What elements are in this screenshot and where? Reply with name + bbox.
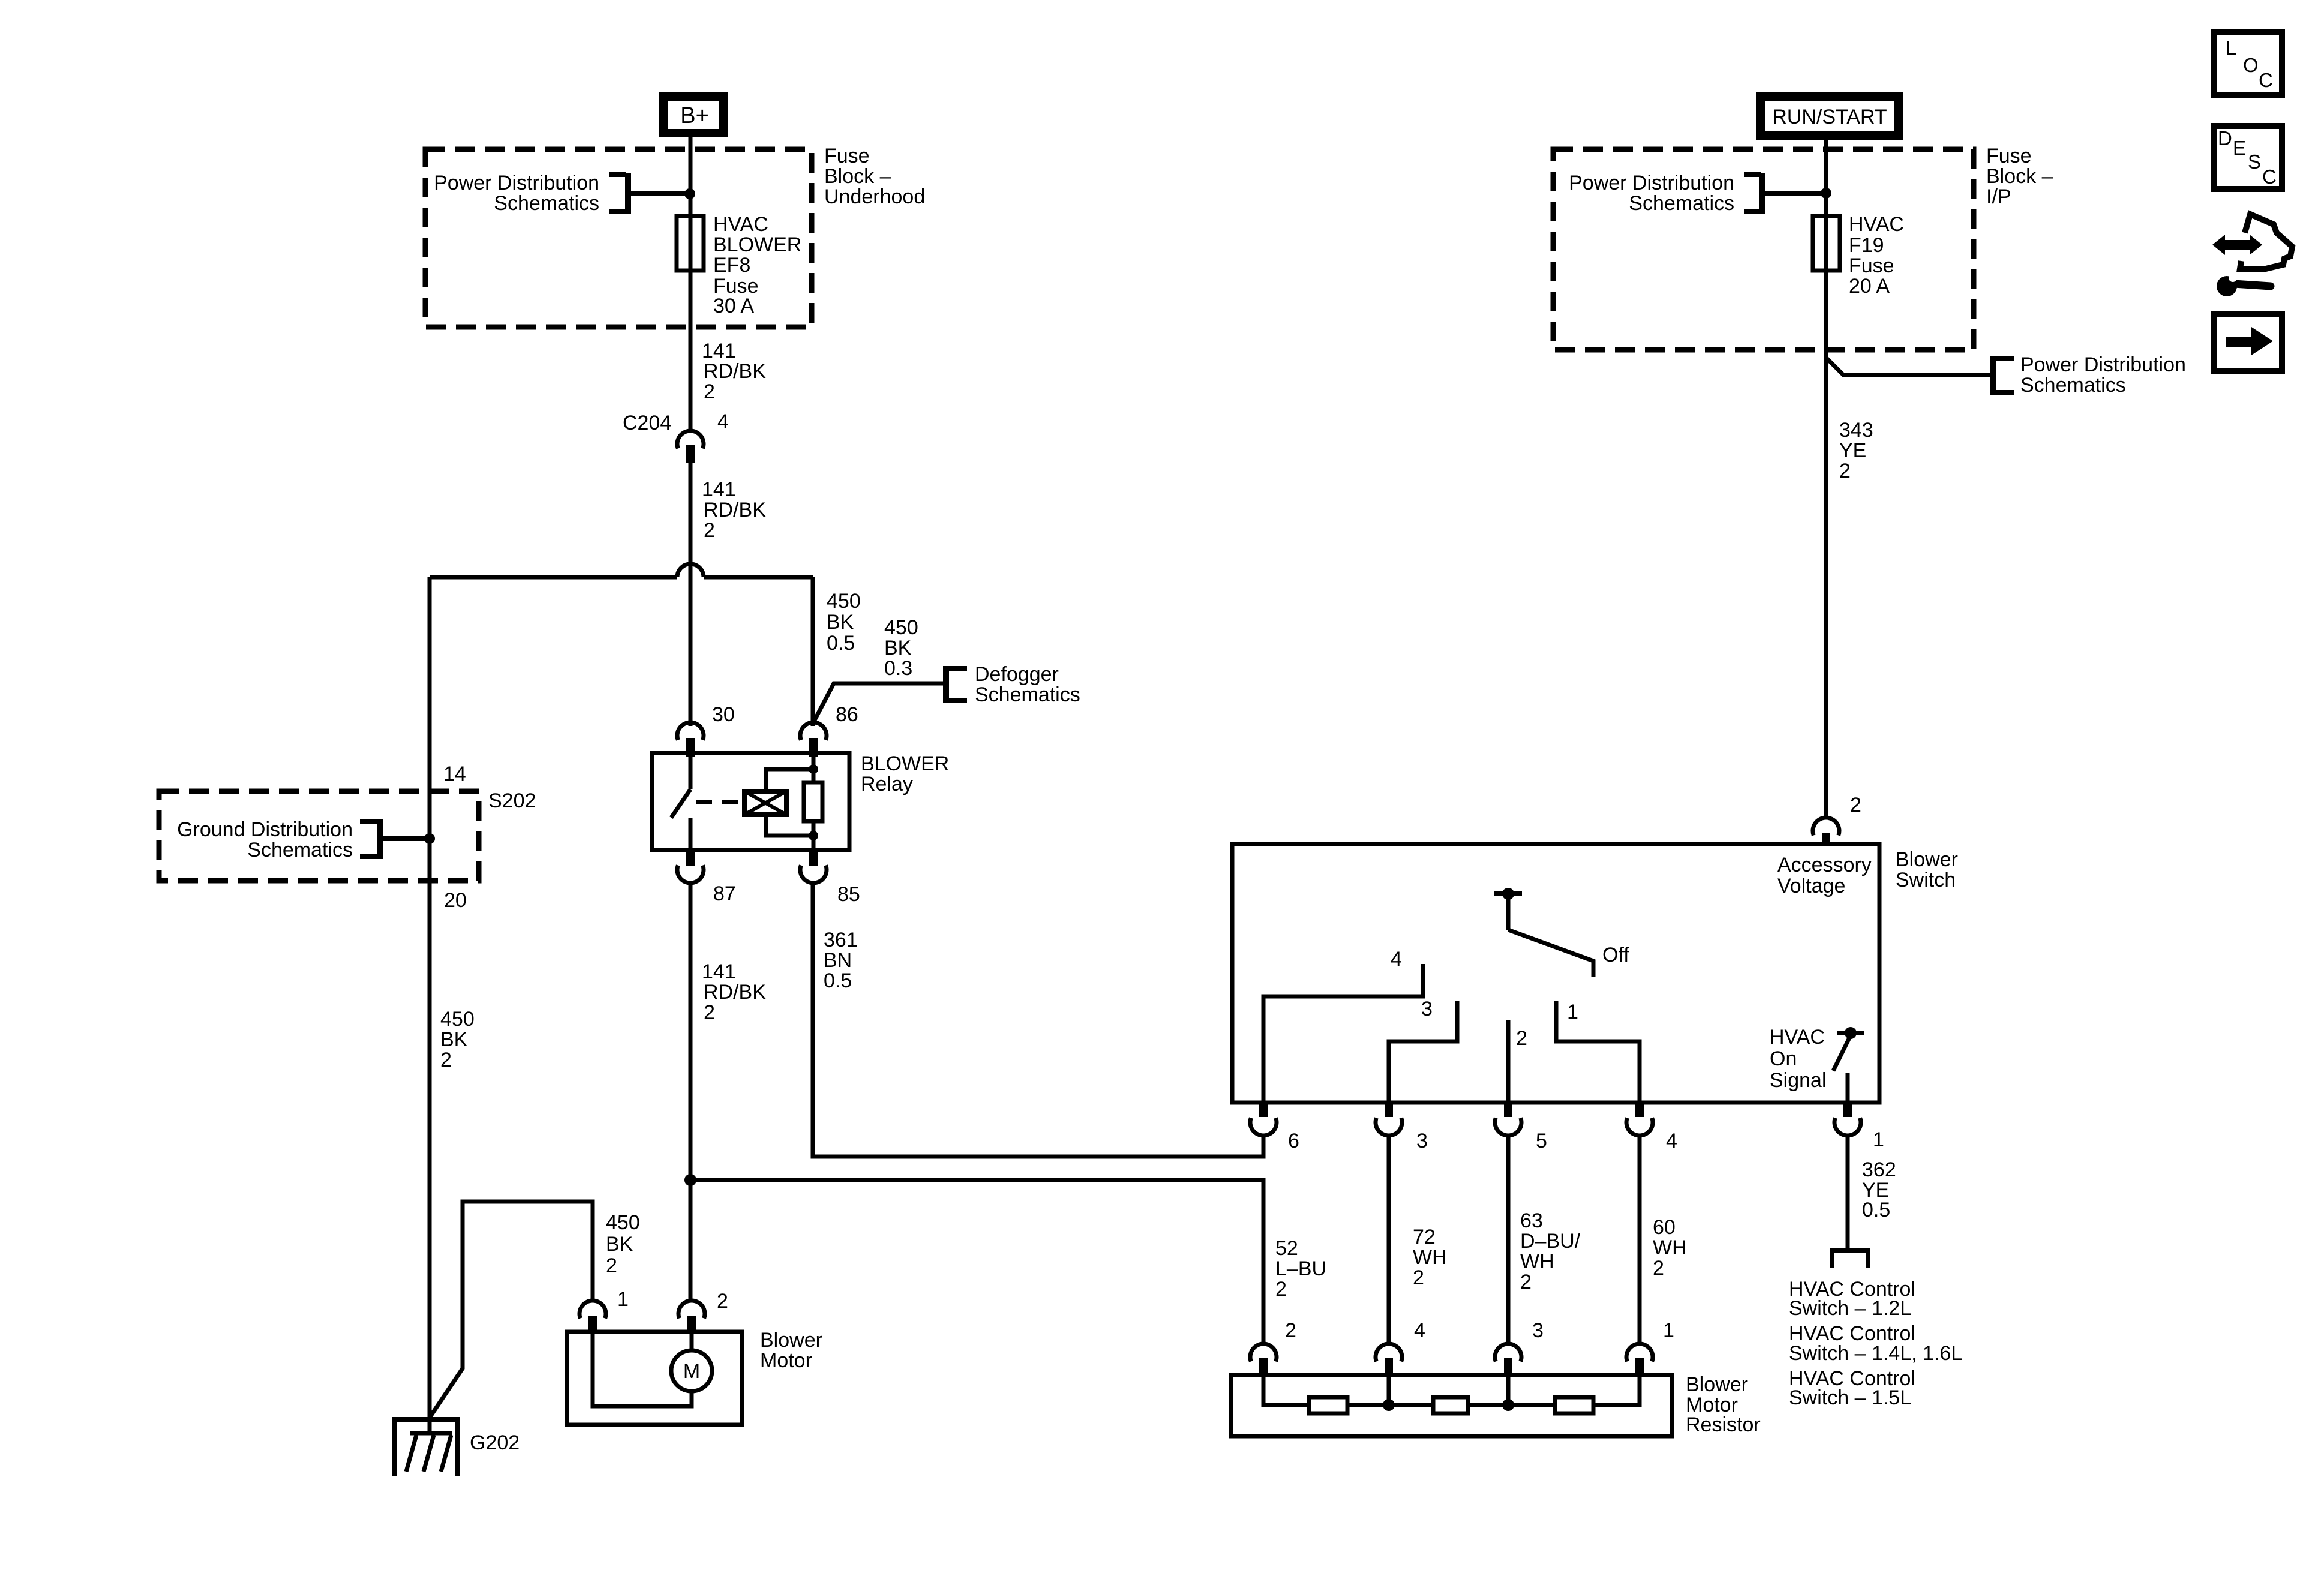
switch position terminal 3 xyxy=(1389,1001,1457,1103)
svg-text:30: 30 xyxy=(712,703,735,726)
svg-text:2: 2 xyxy=(704,1001,715,1024)
label wire 60 WH 2 xyxy=(1653,1216,1687,1280)
svg-text:5: 5 xyxy=(1536,1130,1547,1152)
svg-text:2: 2 xyxy=(1413,1266,1424,1289)
HVAC on signal switch xyxy=(1833,1027,1864,1103)
blower motor box xyxy=(567,1332,742,1425)
node resistor junction a xyxy=(1383,1399,1395,1411)
svg-text:RUN/START: RUN/START xyxy=(1772,106,1887,128)
svg-text:Block –: Block – xyxy=(1986,165,2053,188)
label wire 63 D-BU/WH 2 xyxy=(1520,1209,1581,1293)
svg-text:2: 2 xyxy=(1850,794,1861,816)
svg-text:BK: BK xyxy=(606,1233,633,1256)
label Accessory Voltage xyxy=(1777,854,1872,897)
svg-text:Fuse: Fuse xyxy=(1849,254,1894,277)
svg-text:2: 2 xyxy=(1520,1271,1532,1293)
svg-text:Schematics: Schematics xyxy=(1629,192,1734,215)
blower switch box xyxy=(1232,844,1879,1103)
power tap RUN/START xyxy=(1756,92,1903,140)
svg-text:C204: C204 xyxy=(623,412,671,434)
wire B+ feed xyxy=(689,137,693,726)
label Power Distribution Schematics (right) xyxy=(2020,353,2186,397)
relay connector pin 85 xyxy=(800,850,827,883)
svg-text:F19: F19 xyxy=(1849,234,1884,257)
motor connector pin 1 xyxy=(580,1301,606,1332)
svg-text:Switch – 1.4L, 1.6L: Switch – 1.4L, 1.6L xyxy=(1789,1342,1962,1365)
resistor connector pin 2 xyxy=(1250,1344,1277,1375)
wire 60 WH switch pin 4 to resistor pin 1 xyxy=(1638,1136,1642,1344)
resistor connector pin 4 xyxy=(1376,1344,1402,1375)
svg-text:Power Distribution: Power Distribution xyxy=(434,172,599,194)
resistor internal wires xyxy=(1263,1375,1640,1405)
motor internal wires xyxy=(593,1332,692,1406)
switch connector pin 1 xyxy=(1834,1103,1861,1136)
svg-text:Block –: Block – xyxy=(824,165,891,188)
svg-text:S202: S202 xyxy=(488,789,536,812)
switch connector pin 3 xyxy=(1376,1103,1402,1136)
wire relay coil ground branch xyxy=(811,577,815,726)
fuse F19 HVAC 20 A xyxy=(1813,216,1840,271)
icon box arrow xyxy=(2214,314,2282,371)
wire ground distribution drop xyxy=(428,577,432,1434)
svg-text:Switch: Switch xyxy=(1896,869,1956,891)
svg-text:1: 1 xyxy=(1663,1319,1674,1342)
svg-text:BK: BK xyxy=(440,1028,468,1051)
svg-text:Off: Off xyxy=(1602,944,1629,966)
svg-text:HVAC: HVAC xyxy=(1849,213,1904,236)
relay connector pin 86 xyxy=(800,722,827,757)
svg-text:87: 87 xyxy=(713,882,736,905)
svg-text:0.5: 0.5 xyxy=(824,969,852,992)
svg-text:WH: WH xyxy=(1520,1250,1554,1273)
wire tap to ground distribution xyxy=(380,836,427,841)
switch rotor pivot xyxy=(1494,888,1522,930)
label HVAC On Signal xyxy=(1770,1026,1827,1092)
wire tap to power distribution (I/P) xyxy=(1764,191,1824,196)
svg-text:2: 2 xyxy=(606,1254,617,1277)
svg-text:Schematics: Schematics xyxy=(247,839,353,861)
svg-text:3: 3 xyxy=(1421,998,1433,1020)
label Power Distribution Schematics (I/P) xyxy=(1569,172,1734,215)
label HVAC BLOWER EF8 Fuse 30 A xyxy=(713,213,801,317)
svg-text:Ground Distribution: Ground Distribution xyxy=(177,818,353,841)
label Blower Switch xyxy=(1896,848,1958,891)
svg-text:52: 52 xyxy=(1275,1237,1298,1260)
svg-text:Accessory: Accessory xyxy=(1777,854,1872,876)
svg-text:86: 86 xyxy=(836,703,858,726)
switch rotor blade xyxy=(1508,930,1593,977)
relay connector pin 30 xyxy=(677,722,704,757)
bracket Power Distribution Schematics (I/P) xyxy=(1744,173,1762,214)
node RUN/START tap junction xyxy=(1821,188,1831,199)
label wire 450 BK 2 (ground wire) xyxy=(440,1008,475,1071)
svg-text:20 A: 20 A xyxy=(1849,275,1890,298)
svg-text:Switch – 1.5L: Switch – 1.5L xyxy=(1789,1386,1911,1409)
svg-text:Power Distribution: Power Distribution xyxy=(2020,353,2186,376)
icon box LOC xyxy=(2214,32,2282,95)
svg-text:RD/BK: RD/BK xyxy=(704,360,766,383)
dashed box splice S202 xyxy=(159,791,479,881)
svg-text:On: On xyxy=(1770,1047,1797,1070)
svg-text:450: 450 xyxy=(606,1211,640,1234)
wire 52 L-BU junction to resistor pin 2 xyxy=(690,1180,1263,1345)
svg-text:2: 2 xyxy=(1653,1257,1664,1280)
resistor element 3 xyxy=(1555,1397,1593,1413)
svg-text:2: 2 xyxy=(1275,1278,1287,1301)
svg-text:Fuse: Fuse xyxy=(1986,145,2032,167)
svg-text:2: 2 xyxy=(704,519,715,542)
svg-text:HVAC: HVAC xyxy=(1770,1026,1825,1049)
dashed box Fuse Block - I/P xyxy=(1553,149,1974,350)
svg-text:141: 141 xyxy=(702,478,736,501)
svg-text:2: 2 xyxy=(1516,1027,1527,1050)
svg-text:BLOWER: BLOWER xyxy=(861,752,949,775)
svg-text:Blower: Blower xyxy=(1896,848,1958,871)
node motor feed junction xyxy=(684,1174,696,1186)
wire 362 YE switch pin 1 to HVAC control switch xyxy=(1846,1136,1850,1248)
switch connector pin 5 xyxy=(1495,1103,1521,1136)
svg-text:Relay: Relay xyxy=(861,773,913,795)
label wire 72 WH 2 xyxy=(1413,1226,1447,1289)
node B+ tap junction xyxy=(684,188,695,199)
svg-text:RD/BK: RD/BK xyxy=(704,981,766,1004)
svg-text:0.5: 0.5 xyxy=(827,632,855,655)
wire defogger tap xyxy=(813,683,944,724)
label wire 450 BK 2 (motor branch) xyxy=(606,1211,640,1277)
label Fuse Block - I/P xyxy=(1986,145,2053,208)
wire B+ split horizontal with hop over vertical xyxy=(430,564,813,577)
relay BLOWER Relay box xyxy=(652,753,849,850)
svg-text:1: 1 xyxy=(1567,1001,1578,1023)
svg-text:141: 141 xyxy=(702,340,736,362)
label wire 362 YE 0.5 xyxy=(1862,1158,1896,1221)
bracket Power Distribution Schematics (underhood) xyxy=(609,173,628,214)
wire tap to power distribution schematics (below I/P box) xyxy=(1826,358,1990,375)
svg-text:L–BU: L–BU xyxy=(1275,1257,1326,1280)
svg-text:BN: BN xyxy=(824,949,852,972)
svg-text:63: 63 xyxy=(1520,1209,1543,1232)
svg-text:3: 3 xyxy=(1532,1319,1544,1342)
svg-text:60: 60 xyxy=(1653,1216,1676,1239)
relay coil resistor xyxy=(804,757,822,850)
svg-text:361: 361 xyxy=(824,929,858,951)
wire motor ground branch 450 BK xyxy=(430,1202,593,1418)
svg-text:L: L xyxy=(2226,37,2236,59)
blower motor resistor box xyxy=(1231,1375,1672,1436)
svg-text:Defogger: Defogger xyxy=(975,663,1059,686)
svg-text:2: 2 xyxy=(440,1049,452,1071)
resistor element 1 xyxy=(1309,1397,1347,1413)
svg-text:Schematics: Schematics xyxy=(494,192,599,215)
svg-text:Motor: Motor xyxy=(760,1349,812,1372)
svg-text:RD/BK: RD/BK xyxy=(704,499,766,521)
svg-text:4: 4 xyxy=(1666,1130,1677,1152)
svg-text:2: 2 xyxy=(717,1290,728,1313)
resistor connector pin 1 xyxy=(1626,1344,1653,1375)
bracket Defogger Schematics xyxy=(946,666,967,703)
wire tap to power distribution (underhood) xyxy=(629,191,687,196)
svg-text:Power Distribution: Power Distribution xyxy=(1569,172,1734,194)
svg-text:Underhood: Underhood xyxy=(824,185,925,208)
label BLOWER Relay xyxy=(861,752,949,795)
svg-text:WH: WH xyxy=(1413,1246,1447,1269)
svg-text:85: 85 xyxy=(837,883,860,906)
switch position terminal 2 xyxy=(1506,1020,1511,1103)
node splice S202 xyxy=(424,833,435,844)
node relay coil bottom xyxy=(809,831,818,840)
svg-text:450: 450 xyxy=(884,616,918,639)
switch connector pin 2 (top) xyxy=(1813,818,1839,845)
svg-text:4: 4 xyxy=(1414,1319,1425,1342)
label Blower Motor xyxy=(760,1329,822,1372)
label wire 450 BK 0.3 xyxy=(884,616,918,680)
switch connector pin 6 xyxy=(1250,1103,1277,1136)
power tap B+ xyxy=(659,92,728,137)
svg-text:2: 2 xyxy=(704,380,715,403)
svg-text:450: 450 xyxy=(440,1008,475,1031)
svg-text:YE: YE xyxy=(1839,439,1866,462)
svg-text:I/P: I/P xyxy=(1986,185,2011,208)
svg-text:WH: WH xyxy=(1653,1236,1687,1259)
svg-text:20: 20 xyxy=(444,889,467,912)
svg-text:C: C xyxy=(2259,69,2273,91)
node relay coil top xyxy=(809,764,818,774)
resistor element 2 xyxy=(1433,1397,1468,1413)
svg-text:Resistor: Resistor xyxy=(1686,1413,1761,1436)
label wire 141 RD/BK 2 (above C204) xyxy=(702,340,766,403)
svg-text:3: 3 xyxy=(1416,1130,1428,1152)
svg-text:1: 1 xyxy=(617,1288,629,1311)
svg-text:6: 6 xyxy=(1288,1130,1299,1152)
label wire 450 BK 0.5 xyxy=(827,590,861,655)
svg-text:O: O xyxy=(2243,54,2259,76)
label Ground Distribution Schematics xyxy=(177,818,353,861)
ground symbol G202 xyxy=(395,1419,458,1476)
svg-text:Fuse: Fuse xyxy=(824,145,870,167)
svg-text:Blower: Blower xyxy=(760,1329,822,1352)
svg-text:0.3: 0.3 xyxy=(884,657,912,680)
svg-text:EF8: EF8 xyxy=(713,254,750,277)
resistor connector pin 3 xyxy=(1495,1344,1521,1375)
svg-text:141: 141 xyxy=(702,960,736,983)
label wire 52 L-BU 2 xyxy=(1275,1237,1326,1301)
icon box DESC xyxy=(2214,126,2282,189)
svg-text:BK: BK xyxy=(884,637,912,659)
svg-text:1: 1 xyxy=(1873,1128,1884,1151)
label Power Distribution Schematics (underhood) xyxy=(434,172,599,215)
svg-text:4: 4 xyxy=(1391,948,1402,971)
svg-text:G202: G202 xyxy=(470,1431,520,1454)
svg-text:B+: B+ xyxy=(680,103,709,128)
relay switch contact xyxy=(671,755,690,850)
relay coil xyxy=(744,769,813,836)
switch position terminal 1 xyxy=(1556,1001,1640,1103)
motor connector pin 2 xyxy=(678,1301,705,1332)
wire motor feed 141 RD/BK xyxy=(689,882,693,1301)
svg-text:72: 72 xyxy=(1413,1226,1436,1248)
connector C204 terminal 4 xyxy=(677,431,704,463)
svg-text:Voltage: Voltage xyxy=(1777,875,1845,897)
switch position terminal 4 xyxy=(1263,964,1423,1103)
svg-text:M: M xyxy=(683,1360,700,1383)
node resistor junction b xyxy=(1502,1399,1514,1411)
svg-text:C: C xyxy=(2262,166,2277,188)
svg-text:BLOWER: BLOWER xyxy=(713,233,801,256)
svg-text:362: 362 xyxy=(1862,1158,1896,1181)
svg-text:450: 450 xyxy=(827,590,861,613)
bracket Power Distribution Schematics (right) xyxy=(1993,356,2014,395)
svg-text:D: D xyxy=(2218,127,2232,149)
svg-text:Blower: Blower xyxy=(1686,1373,1748,1396)
svg-text:BK: BK xyxy=(827,611,854,634)
label wire 361 BN 0.5 xyxy=(824,929,858,992)
svg-text:Schematics: Schematics xyxy=(975,683,1080,706)
label wire 141 RD/BK 2 (motor feed) xyxy=(702,960,766,1024)
svg-text:E: E xyxy=(2233,137,2246,159)
switch connector pin 4 xyxy=(1626,1103,1653,1136)
label HVAC F19 Fuse 20 A xyxy=(1849,213,1904,298)
label HVAC Control Switch variants xyxy=(1789,1278,1962,1409)
svg-text:2: 2 xyxy=(1839,460,1851,482)
svg-text:14: 14 xyxy=(443,763,466,785)
svg-text:D–BU/: D–BU/ xyxy=(1520,1230,1581,1253)
svg-text:4: 4 xyxy=(717,410,729,433)
svg-text:Schematics: Schematics xyxy=(2020,374,2126,397)
icon wrench and double arrow xyxy=(2212,214,2292,296)
label Defogger Schematics xyxy=(975,663,1080,706)
svg-text:30 A: 30 A xyxy=(713,295,754,317)
connector to HVAC control switch (staple) xyxy=(1832,1251,1868,1268)
wire 63 D-BU/WH switch pin 5 to resistor pin 3 xyxy=(1506,1136,1511,1344)
svg-text:343: 343 xyxy=(1839,419,1873,442)
svg-text:2: 2 xyxy=(1285,1319,1296,1342)
wire 361 BN relay pin 85 to switch pin 6 xyxy=(813,882,1263,1157)
dashed box Fuse Block - Underhood xyxy=(425,149,812,327)
svg-text:0.5: 0.5 xyxy=(1862,1199,1890,1221)
svg-text:Switch – 1.2L: Switch – 1.2L xyxy=(1789,1297,1911,1320)
label Fuse Block - Underhood xyxy=(824,145,925,208)
svg-text:Signal: Signal xyxy=(1770,1069,1827,1092)
motor M circle xyxy=(671,1350,712,1391)
bracket Ground Distribution Schematics xyxy=(360,819,380,859)
label Blower Motor Resistor xyxy=(1686,1373,1761,1436)
relay actuator dashed line xyxy=(696,800,747,804)
wire 72 WH switch pin 3 to resistor pin 4 xyxy=(1387,1136,1391,1344)
label wire 141 RD/BK 2 (below C204) xyxy=(702,478,766,542)
relay connector pin 87 xyxy=(677,850,704,883)
svg-text:HVAC: HVAC xyxy=(713,213,768,236)
label wire 343 YE 2 xyxy=(1839,419,1873,482)
wire RUN/START feed xyxy=(1824,137,1828,819)
svg-text:S: S xyxy=(2248,151,2261,173)
fuse EF8 HVAC BLOWER 30 A xyxy=(677,216,704,271)
